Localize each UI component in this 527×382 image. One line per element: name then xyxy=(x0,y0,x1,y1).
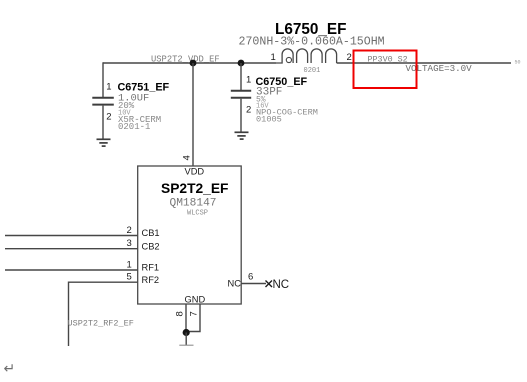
wire CB1 xyxy=(5,235,138,237)
highlight box (red selection) xyxy=(354,51,417,89)
svg-text:01005: 01005 xyxy=(256,115,282,125)
wire C6750 to ground xyxy=(240,99,242,132)
svg-text:7: 7 xyxy=(189,311,200,316)
svg-text:270NH-3%-0.060A-15OHM: 270NH-3%-0.060A-15OHM xyxy=(239,36,385,49)
svg-text:2: 2 xyxy=(347,52,352,63)
ground (GND net) xyxy=(185,333,187,346)
ground bar xyxy=(179,344,193,346)
svg-text:SP2T2_EF: SP2T2_EF xyxy=(161,181,228,196)
svg-text:2: 2 xyxy=(246,105,251,116)
svg-text:5: 5 xyxy=(127,272,132,283)
wire GND pin 8 xyxy=(185,304,187,333)
wire USP2T2_VDD_EF horizontal xyxy=(103,62,276,64)
svg-text:1: 1 xyxy=(246,75,251,86)
ground (C6750) xyxy=(235,132,249,139)
svg-text:1: 1 xyxy=(127,260,132,271)
wire NC pin 6 xyxy=(241,283,266,285)
svg-text:VDD: VDD xyxy=(185,167,205,177)
svg-text:USP2T2_RF2_EF: USP2T2_RF2_EF xyxy=(68,319,134,329)
svg-text:3: 3 xyxy=(127,238,132,249)
svg-text:4: 4 xyxy=(182,155,193,160)
wire to C6750 xyxy=(240,63,242,91)
wire PP3V0_S2 xyxy=(337,62,511,64)
wire to C6751 xyxy=(102,62,104,97)
svg-text:GND: GND xyxy=(185,295,206,305)
svg-text:NC: NC xyxy=(228,278,242,288)
wire RF1 xyxy=(5,269,138,271)
svg-text:0201: 0201 xyxy=(304,67,321,75)
svg-text:NC: NC xyxy=(273,279,290,291)
wire VDD pin 4 vertical xyxy=(192,63,194,166)
svg-text:0201-1: 0201-1 xyxy=(118,122,150,132)
svg-text:RF1: RF1 xyxy=(142,263,160,273)
svg-text:PP3V0_S2: PP3V0_S2 xyxy=(368,55,408,65)
svg-text:8: 8 xyxy=(175,311,186,316)
svg-text:WLCSP: WLCSP xyxy=(187,210,208,218)
wire RF2 (bent) xyxy=(69,282,138,346)
capacitor C6750 plates xyxy=(231,91,251,98)
no-connect X xyxy=(266,281,273,288)
svg-text:VOLTAGE=3.0V: VOLTAGE=3.0V xyxy=(406,63,473,74)
junction node C6750 xyxy=(238,60,245,67)
svg-text:50: 50 xyxy=(515,60,521,66)
op IC body U SP2T2_EF xyxy=(138,166,242,304)
ground (C6751) xyxy=(97,139,111,146)
junction node GND xyxy=(183,329,190,336)
svg-text:CB2: CB2 xyxy=(142,241,160,251)
capacitor C6751 plates xyxy=(92,98,114,105)
svg-text:1: 1 xyxy=(271,52,276,63)
svg-text:USP2T2_VDD_EF: USP2T2_VDD_EF xyxy=(151,55,220,65)
wire CB2 xyxy=(5,248,138,250)
svg-text:CB1: CB1 xyxy=(142,228,160,238)
wire GND pin 7 xyxy=(186,304,200,332)
svg-text:RF2: RF2 xyxy=(142,275,160,285)
svg-text:2: 2 xyxy=(106,112,111,123)
svg-text:1: 1 xyxy=(106,82,111,93)
inductor L6750_EF xyxy=(276,49,337,63)
junction node VDD/pin4 xyxy=(190,60,197,67)
svg-text:2: 2 xyxy=(127,225,132,236)
svg-text:QM18147: QM18147 xyxy=(170,198,217,210)
svg-text:↵: ↵ xyxy=(4,360,16,376)
svg-text:6: 6 xyxy=(248,272,253,283)
wire C6751 to ground xyxy=(102,106,104,139)
